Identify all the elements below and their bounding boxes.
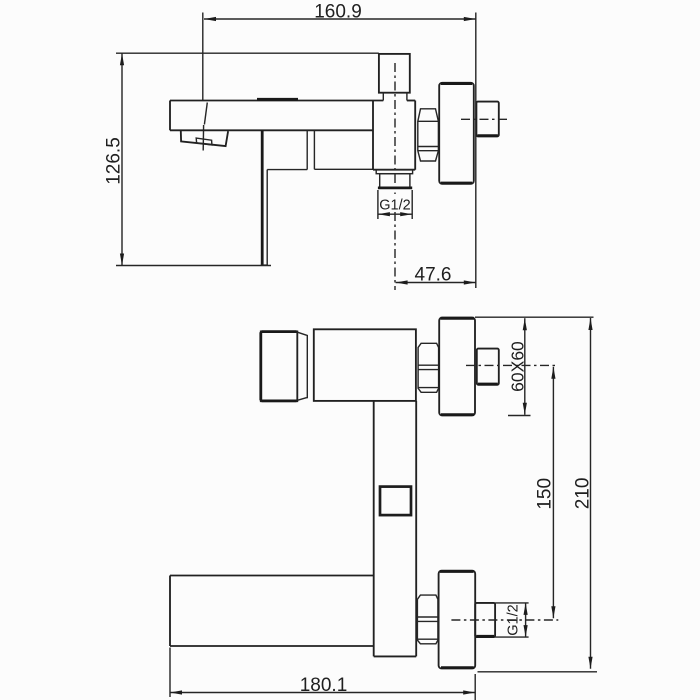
svg-text:60X60: 60X60 — [508, 341, 528, 392]
extension line left of 160.9 (to aerator) — [203, 13, 208, 151]
top wall stub 60x60 (front view) — [477, 349, 499, 385]
handle knob (front view) — [261, 331, 298, 401]
hex nut (side view) — [418, 109, 439, 161]
cartridge body (front view) — [314, 329, 416, 401]
bottom hex nut (front view) — [417, 595, 438, 644]
svg-text:180.1: 180.1 — [300, 675, 348, 696]
svg-text:160.9: 160.9 — [314, 2, 362, 23]
svg-text:G1/2: G1/2 — [379, 198, 410, 214]
handle neck strip — [298, 332, 308, 400]
vertical column (front view) — [374, 401, 417, 657]
210 bottom reference line — [478, 671, 598, 673]
svg-text:126.5: 126.5 — [103, 137, 124, 185]
spout (front view) — [170, 576, 374, 647]
diverter knob on body top — [379, 54, 410, 101]
diverter button square — [380, 487, 411, 515]
svg-text:47.6: 47.6 — [415, 264, 452, 285]
vertical dashed centerline of body — [394, 63, 396, 290]
flange bottom short reference line (60X60) — [508, 415, 531, 417]
G1/2 dimension extension lines — [378, 190, 412, 219]
wall flange (side view) — [439, 83, 474, 184]
dimension 47.6 line — [396, 280, 476, 284]
under-spout notch lines — [307, 130, 314, 169]
G1/2 dimension reference lines (bottom stub) — [495, 603, 528, 637]
thick segment on spout top — [257, 98, 298, 101]
dimension 126.5 line — [120, 53, 124, 265]
svg-text:G1/2: G1/2 — [505, 604, 521, 635]
aerator under spout tip — [181, 131, 228, 146]
horizontal dash-dot centerline of wall stub — [461, 118, 511, 120]
handle lever (side view, hanging down) — [261, 130, 267, 265]
outlet stub G1/2 (bottom of body) — [376, 170, 412, 188]
G1/2 dimension arrows — [378, 212, 412, 216]
valve body (side view) — [373, 101, 415, 170]
dimension 60X60 line — [523, 318, 527, 415]
under-spout shelf right segment — [314, 168, 373, 170]
wall line (right extension of 160.9 / 47.6) — [475, 13, 477, 289]
dimension 180.1 extension lines — [170, 648, 475, 700]
dimension 210 line — [588, 318, 592, 669]
wall stub G1/2 (side view, right) — [476, 102, 498, 137]
dash-dot centerline top stub — [466, 364, 558, 366]
svg-text:210: 210 — [572, 478, 593, 510]
spout body outline (side view) — [170, 101, 383, 131]
dimension 126.5 reference line bottom — [116, 265, 271, 267]
under-spout shelf left segment — [267, 169, 307, 171]
dimension 126.5 reference line top — [116, 52, 379, 54]
dimension 180.1 line — [170, 690, 475, 694]
dimension 150 line — [551, 367, 555, 618]
dash-dot centerline bottom stub — [451, 619, 558, 621]
dimension 160.9 line — [204, 17, 476, 21]
top wall flange (front view) — [439, 318, 475, 416]
svg-text:150: 150 — [535, 478, 556, 510]
G1/2 dimension line (bottom) — [524, 603, 528, 637]
flange top reference line extended (210/60X60) — [475, 316, 594, 318]
bottom wall flange (front view) — [439, 571, 476, 669]
bottom wall stub G1/2 (front view) — [475, 603, 495, 637]
top hex nut (front view) — [418, 343, 439, 392]
